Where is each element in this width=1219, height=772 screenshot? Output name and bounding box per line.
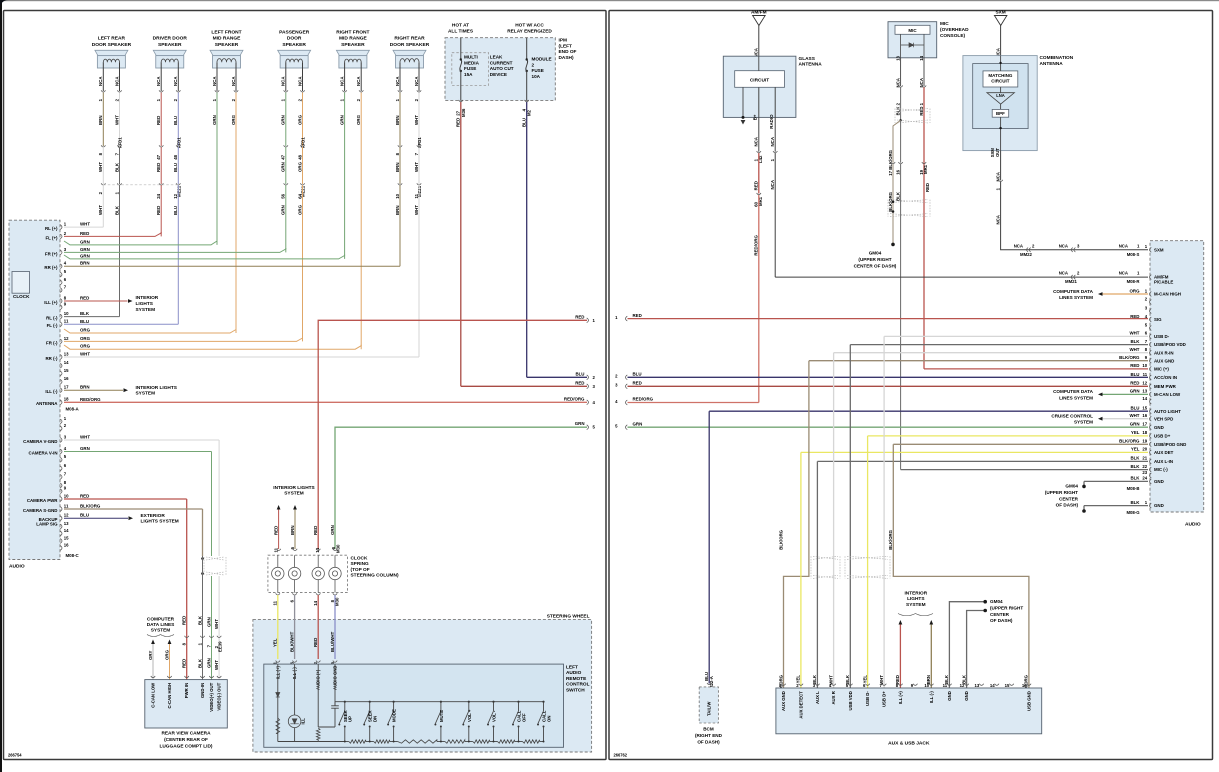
svg-text:VOL +: VOL +: [467, 709, 472, 722]
svg-text:24: 24: [156, 193, 161, 198]
svg-text:BLK: BLK: [1130, 500, 1140, 505]
svg-text:MULTI: MULTI: [464, 55, 478, 60]
svg-text:48: 48: [173, 154, 178, 159]
audio pin15 AUTO LIGHT: [1150, 409, 1152, 414]
svg-text:M08-A: M08-A: [66, 407, 80, 412]
svg-text:RED: RED: [156, 206, 161, 215]
combination antenna box: [963, 55, 1074, 157]
switch MUTE: [434, 701, 444, 742]
svg-text:GRN: GRN: [80, 239, 90, 244]
svg-text:(LEFT: (LEFT: [559, 43, 573, 49]
svg-text:56: 56: [281, 193, 286, 198]
svg-text:NCA: NCA: [895, 77, 900, 87]
svg-text:BLK: BLK: [114, 205, 119, 215]
svg-text:MATCHING: MATCHING: [988, 73, 1012, 78]
svg-text:WHT: WHT: [114, 115, 119, 125]
svg-text:RED: RED: [575, 314, 584, 319]
svg-text:10: 10: [64, 311, 69, 316]
MIC minus BLK wire down to audio pin22: [895, 164, 930, 470]
svg-text:GRN: GRN: [1130, 422, 1140, 427]
glass antenna ground stub: [741, 87, 746, 124]
svg-text:NCA: NCA: [770, 136, 775, 146]
svg-text:CIRCUIT: CIRCUIT: [991, 78, 1010, 83]
svg-text:CENTER OF DASH): CENTER OF DASH): [854, 263, 897, 268]
svg-text:MIC (-): MIC (-): [1154, 467, 1168, 472]
speaker spk3 LEFT FRONT MID RANGE SPEAKER: [210, 29, 243, 101]
audio pin AM/FM P/CABLE: [1119, 271, 1174, 285]
svg-text:AUX DETECT: AUX DETECT: [798, 691, 803, 719]
svg-text:CAMERA V-GND: CAMERA V-GND: [23, 439, 57, 444]
svg-text:SXM: SXM: [995, 10, 1005, 16]
svg-text:AUX & USB JACK: AUX & USB JACK: [888, 741, 930, 747]
svg-text:ILL (+): ILL (+): [898, 691, 903, 704]
steering wheel dashed box: [253, 620, 592, 752]
svg-text:LEFT FRONT: LEFT FRONT: [211, 29, 241, 35]
audio pin20 AUX DET: [801, 447, 1174, 455]
audio+ branch with resistor: [316, 664, 320, 741]
svg-text:WHT: WHT: [414, 162, 419, 172]
svg-text:NCA: NCA: [1119, 271, 1128, 276]
svg-text:RL (+): RL (+): [45, 226, 58, 231]
svg-text:BLU: BLU: [1130, 372, 1139, 377]
speaker spk4 PASSENGER DOOR SPEAKER: [278, 29, 311, 101]
svg-text:MODE: MODE: [392, 709, 397, 722]
SXM OUT wire to audio: [995, 151, 1148, 257]
svg-text:FUSE: FUSE: [464, 66, 476, 71]
svg-text:22: 22: [1142, 464, 1147, 469]
svg-text:SYSTEM: SYSTEM: [136, 391, 156, 397]
svg-text:REMOTE: REMOTE: [566, 676, 586, 682]
svg-text:RED: RED: [156, 116, 161, 125]
svg-text:GRN: GRN: [206, 617, 211, 627]
svg-text:SYSTEM: SYSTEM: [151, 628, 171, 634]
svg-text:13: 13: [975, 683, 980, 688]
audio pin13 M-CAN LOW with computer data arrow: [1053, 389, 1181, 401]
svg-text:10: 10: [64, 493, 69, 498]
svg-text:SYSTEM: SYSTEM: [136, 307, 156, 313]
svg-text:FL (+): FL (+): [45, 235, 58, 240]
svg-text:COMBINATION: COMBINATION: [1040, 55, 1074, 61]
MIC BLK/ORG wire to GM04 ground: [854, 164, 930, 268]
svg-text:EXTERIOR: EXTERIOR: [141, 513, 166, 519]
svg-text:LINES SYSTEM: LINES SYSTEM: [1059, 395, 1093, 400]
svg-text:RED: RED: [1130, 314, 1139, 319]
svg-text:GRN: GRN: [281, 162, 286, 172]
svg-text:GRY: GRY: [148, 651, 153, 660]
svg-text:UP: UP: [348, 716, 353, 722]
svg-text:LEFT: LEFT: [566, 665, 578, 671]
svg-text:USB VDD: USB VDD: [848, 691, 853, 710]
svg-text:ORG: ORG: [164, 649, 169, 660]
clock module box: [12, 272, 30, 294]
svg-text:RIGHT FRONT: RIGHT FRONT: [336, 29, 369, 35]
svg-text:RIGHT REAR: RIGHT REAR: [394, 36, 425, 42]
svg-text:13: 13: [64, 521, 69, 526]
svg-text:266754: 266754: [8, 753, 22, 758]
svg-text:M36: M36: [461, 108, 466, 117]
svg-text:15: 15: [1005, 683, 1010, 688]
svg-text:NCA: NCA: [919, 77, 924, 87]
svg-text:NCA: NCA: [98, 76, 103, 86]
svg-text:YEL: YEL: [1131, 447, 1140, 452]
BCM box right page: [695, 687, 723, 744]
wire row pin1 WHT to spk1 left: [64, 222, 103, 228]
wire row CAMERA PWR RED: [64, 494, 187, 557]
svg-text:USB D+: USB D+: [882, 691, 887, 707]
audio pin3: [1150, 309, 1152, 314]
svg-text:BLU: BLU: [173, 206, 178, 215]
svg-text:14: 14: [1142, 396, 1147, 401]
svg-text:USB/IPOD GND: USB/IPOD GND: [1154, 442, 1186, 447]
svg-text:M08-R: M08-R: [1127, 279, 1140, 284]
svg-text:GRN: GRN: [206, 658, 211, 668]
svg-text:GRN: GRN: [281, 115, 286, 125]
svg-text:GLASS: GLASS: [799, 56, 815, 62]
svg-text:(UPPER RIGHT: (UPPER RIGHT: [1045, 490, 1078, 495]
svg-text:12: 12: [64, 513, 69, 518]
svg-text:WHT: WHT: [98, 162, 103, 172]
svg-text:DEVICE: DEVICE: [490, 72, 507, 77]
jack wire labels above pins: [778, 674, 1028, 695]
svg-text:BLK: BLK: [895, 191, 900, 201]
svg-text:YEL: YEL: [1131, 430, 1140, 435]
svg-text:USB/IPOD VDD: USB/IPOD VDD: [1154, 342, 1186, 347]
svg-text:AUX R: AUX R: [831, 691, 836, 704]
svg-text:17: 17: [1142, 422, 1147, 427]
svg-text:RED: RED: [456, 118, 461, 127]
svg-text:COMPUTER DATA: COMPUTER DATA: [1053, 289, 1094, 294]
svg-text:RED: RED: [182, 659, 187, 668]
AM/FM P-CABLE wire to audio: [775, 271, 1148, 285]
svg-text:GND: GND: [947, 691, 952, 701]
svg-text:47: 47: [281, 154, 286, 159]
svg-text:INTERIOR: INTERIOR: [136, 295, 159, 301]
wire row FR+ GRN to spk5 left: [64, 253, 345, 259]
switch ladder top rail: [335, 702, 544, 706]
svg-text:BLK: BLK: [1130, 456, 1140, 461]
svg-text:10A: 10A: [532, 74, 541, 79]
wire AUX GND BLK/ORG drop with jog to jack pin1: [778, 361, 809, 688]
svg-text:MM22: MM22: [1020, 252, 1033, 257]
svg-text:10: 10: [1142, 363, 1147, 368]
svg-text:CAMERA V-IN: CAMERA V-IN: [29, 450, 58, 455]
svg-text:14: 14: [919, 55, 924, 60]
switch CALL OFF: [512, 701, 526, 742]
svg-text:AUX GND: AUX GND: [781, 691, 786, 711]
svg-text:ANTENNA: ANTENNA: [36, 401, 58, 406]
svg-text:GRN: GRN: [330, 525, 335, 535]
spk1 wires WHT/BLK middle segment: [98, 147, 122, 194]
svg-text:RED: RED: [80, 296, 89, 301]
svg-text:MEDIA: MEDIA: [464, 60, 480, 65]
svg-text:24: 24: [1142, 476, 1147, 481]
wire AUX R WHT drop to jack pin4: [833, 353, 835, 688]
svg-text:RED: RED: [925, 183, 930, 192]
glass antenna B+ output wire down to exit: [753, 87, 763, 402]
svg-text:CURRENT: CURRENT: [490, 60, 513, 65]
audio pin24 GND to GM04: [1082, 476, 1164, 491]
svg-text:AUX GND: AUX GND: [1154, 358, 1174, 363]
wire USB D+ YEL drop to jack pin6: [867, 436, 869, 688]
svg-text:BLK/WHT: BLK/WHT: [289, 631, 294, 652]
svg-text:CAMERA S-GND: CAMERA S-GND: [23, 508, 58, 513]
MIC BLK splice junction: [888, 119, 928, 176]
svg-text:16: 16: [1142, 413, 1147, 418]
svg-text:BLK/ORG: BLK/ORG: [888, 529, 893, 549]
svg-text:ORG: ORG: [297, 114, 302, 125]
fuse MULTI MEDIA 15A: [460, 38, 462, 101]
svg-text:RED: RED: [80, 494, 89, 499]
svg-text:LUGGAGE COMPT LID): LUGGAGE COMPT LID): [159, 744, 212, 750]
svg-text:VOL -: VOL -: [492, 710, 497, 722]
switch box pin name labels: [275, 666, 337, 691]
exit row 5 GRN to clock spring: [335, 421, 596, 549]
svg-text:NCA: NCA: [156, 76, 161, 86]
svg-text:GRN: GRN: [339, 115, 344, 125]
svg-text:ACC/ON IN: ACC/ON IN: [1154, 375, 1177, 380]
svg-text:EE39: EE39: [218, 641, 223, 652]
audio pin11 ACC/ON IN: [1150, 375, 1152, 380]
svg-text:14: 14: [64, 528, 69, 533]
svg-text:LIGHTS: LIGHTS: [136, 301, 153, 307]
svg-text:SIG: SIG: [1154, 317, 1162, 322]
svg-text:(OVERHEAD: (OVERHEAD: [940, 27, 969, 33]
svg-text:OFF: OFF: [521, 713, 526, 722]
svg-text:NCA: NCA: [356, 76, 361, 86]
svg-text:GRN: GRN: [281, 205, 286, 215]
wire row CAMERA V-IN GRN: [64, 446, 212, 556]
svg-text:C-CAN LOW: C-CAN LOW: [151, 682, 156, 708]
svg-text:OF DASH): OF DASH): [697, 739, 720, 744]
svg-text:GND-IN: GND-IN: [200, 683, 205, 698]
MIC overhead console box: [888, 21, 969, 61]
svg-text:16: 16: [64, 376, 69, 381]
svg-text:SYSTEM: SYSTEM: [1074, 420, 1093, 425]
svg-text:47: 47: [156, 154, 161, 159]
svg-text:MODULE: MODULE: [532, 57, 552, 62]
svg-text:BRN: BRN: [290, 525, 295, 535]
wires from clock spring into steering wheel: [273, 595, 335, 664]
svg-text:RED: RED: [1130, 381, 1139, 386]
svg-text:SPEAKER: SPEAKER: [158, 42, 182, 48]
svg-text:AUX L-IN: AUX L-IN: [1154, 459, 1173, 464]
wire row pin10 BLK to spk1 right: [64, 311, 120, 317]
speaker spk6 RIGHT REAR DOOR SPEAKER: [390, 36, 430, 102]
svg-text:11: 11: [64, 503, 69, 508]
speaker spk5 RIGHT FRONT MID RANGE SPEAKER: [336, 29, 369, 101]
wire row pin12 ORG to spk4 right: [64, 336, 303, 342]
svg-text:BLK: BLK: [80, 311, 90, 316]
entry row 5 GRN to GND pin17: [626, 425, 628, 430]
svg-text:OF DASH): OF DASH): [990, 618, 1013, 623]
svg-text:20: 20: [1142, 447, 1147, 452]
svg-text:WHT: WHT: [80, 222, 90, 227]
multi media fuse dashed box: [452, 53, 489, 86]
svg-text:INTERIOR LIGHTS: INTERIOR LIGHTS: [273, 485, 314, 491]
audio pin9 AUX GND: [809, 355, 1174, 363]
svg-text:M30: M30: [336, 544, 341, 553]
audio pin12 MEM PWR: [1150, 384, 1152, 389]
exit row 4 RED/ORG bracket: [587, 400, 589, 405]
svg-text:ORG: ORG: [231, 114, 236, 125]
svg-text:RED: RED: [1130, 363, 1139, 368]
audio M08-C pin rows: [23, 416, 80, 558]
svg-text:SPEAKER: SPEAKER: [341, 42, 365, 48]
svg-text:ORG: ORG: [80, 344, 91, 349]
spk2 wires RED/BLU middle segment: [156, 147, 181, 199]
svg-text:GM04: GM04: [1065, 484, 1078, 489]
left page border: [4, 11, 607, 760]
audio pin19 USB/IPOD GND: [893, 439, 1186, 447]
audio pin22 MIC-: [901, 464, 1169, 472]
svg-text:HOT AT: HOT AT: [452, 23, 469, 29]
svg-text:STEERING COLUMN): STEERING COLUMN): [351, 573, 399, 579]
wire AUX DET YEL drop to jack pin2: [800, 452, 802, 688]
svg-text:(TOP OF: (TOP OF: [351, 567, 370, 573]
svg-text:16: 16: [64, 542, 69, 547]
svg-text:DOOR SPEAKER: DOOR SPEAKER: [92, 42, 132, 48]
svg-text:CONTROL: CONTROL: [566, 682, 590, 688]
svg-text:NCA: NCA: [231, 76, 236, 86]
wire row FR- ORG to spk5 right: [64, 344, 361, 350]
svg-text:MUTE: MUTE: [439, 710, 444, 722]
svg-text:CENTER: CENTER: [1059, 496, 1079, 501]
svg-text:RED: RED: [313, 638, 318, 647]
fuse MODULE 2 10A: [526, 38, 552, 101]
svg-text:RED: RED: [156, 163, 161, 172]
svg-text:LIGHTS SYSTEM: LIGHTS SYSTEM: [141, 519, 179, 525]
audio pin16 VEH SPD with cruise control arrow: [1051, 413, 1173, 425]
svg-text:CLOCK: CLOCK: [13, 294, 30, 299]
spk1 wires BRN/WHT upper segment: [98, 93, 122, 156]
IPM box (LEFT END OF DASH): [445, 38, 555, 101]
svg-text:14: 14: [990, 683, 995, 688]
svg-text:P/CABLE: P/CABLE: [1154, 280, 1173, 285]
svg-text:SPRING: SPRING: [351, 561, 370, 567]
svg-text:WHT: WHT: [214, 619, 219, 629]
spk6 wires BRN/WHT middle segment: [395, 147, 422, 199]
svg-text:BRN: BRN: [98, 115, 103, 125]
svg-text:GND: GND: [1154, 503, 1164, 508]
svg-text:17: 17: [64, 385, 69, 390]
svg-text:RED/ORG: RED/ORG: [564, 396, 585, 401]
svg-text:FUSE: FUSE: [532, 68, 544, 73]
svg-text:GRN: GRN: [80, 253, 90, 258]
svg-text:GND: GND: [964, 691, 969, 701]
svg-text:AUDIO: AUDIO: [566, 670, 582, 676]
svg-text:RELAY ENERGIZED: RELAY ENERGIZED: [507, 28, 552, 34]
clock spring lower pins: [273, 593, 340, 606]
svg-text:ORG: ORG: [1129, 288, 1140, 293]
switch VOL +: [462, 701, 472, 742]
svg-text:BLK: BLK: [1130, 339, 1140, 344]
wire USB D- WHT drop to jack pin7: [883, 336, 885, 688]
audio pin10 MIC+: [924, 363, 1169, 371]
svg-text:NCA: NCA: [212, 76, 217, 86]
svg-text:SYSTEM: SYSTEM: [906, 602, 926, 608]
svg-text:BLU: BLU: [522, 118, 527, 127]
svg-text:13: 13: [1142, 389, 1147, 394]
audio pin17 GND: [1150, 425, 1152, 430]
wire row pin2 RED to spk2 left: [64, 231, 161, 237]
svg-text:RADIO: RADIO: [769, 114, 774, 129]
svg-text:14: 14: [313, 600, 318, 605]
svg-text:INTERIOR LIGHTS: INTERIOR LIGHTS: [136, 385, 177, 391]
svg-text:21: 21: [1142, 456, 1147, 461]
svg-text:SPEAKER: SPEAKER: [215, 42, 239, 48]
svg-text:BLK: BLK: [1130, 464, 1140, 469]
svg-text:14: 14: [64, 360, 69, 365]
svg-text:16: 16: [895, 169, 900, 174]
svg-text:NCA: NCA: [173, 76, 178, 86]
right page border: [609, 11, 1213, 760]
svg-text:BRN: BRN: [80, 261, 90, 266]
svg-text:AUX DET: AUX DET: [1154, 450, 1174, 455]
wire row CAMERA V-GND WHT: [64, 435, 219, 557]
svg-text:NCA: NCA: [1014, 243, 1023, 248]
entry row 2 BLU to BCM drop: [615, 372, 1148, 380]
svg-text:GRN: GRN: [633, 421, 643, 426]
svg-text:MIC: MIC: [940, 21, 949, 27]
jack GND wires to GM04 grounds: [944, 599, 1023, 688]
svg-text:RL (-): RL (-): [46, 316, 58, 321]
spk6 wires BRN/WHT upper segment: [395, 93, 422, 156]
svg-text:AUX L: AUX L: [815, 691, 820, 704]
svg-text:WHT: WHT: [1129, 413, 1139, 418]
AM/FM antenna symbol: [751, 10, 767, 58]
svg-text:NCA: NCA: [995, 214, 1000, 224]
audio pin7 USB/IPOD VDD: [850, 339, 1186, 347]
audio pin8 AUX R-IN: [834, 347, 1174, 355]
exit row 1 RED to right page: [318, 314, 595, 549]
svg-text:(UPPER RIGHT: (UPPER RIGHT: [858, 257, 891, 262]
svg-text:GM04: GM04: [869, 251, 882, 256]
spk4 wires GRN/ORG lower segment to audio pins 3/12: [281, 185, 303, 341]
svg-text:BPF: BPF: [996, 111, 1005, 116]
svg-text:WHT: WHT: [1129, 331, 1139, 336]
svg-text:VIDEO(+) OUT: VIDEO(+) OUT: [209, 682, 214, 711]
audio pin SXM: [1119, 243, 1164, 256]
svg-text:GM04: GM04: [990, 599, 1003, 604]
svg-text:BCM: BCM: [703, 727, 714, 732]
svg-text:GRN: GRN: [80, 446, 90, 451]
svg-text:WHT: WHT: [98, 205, 103, 215]
audio unit box right page: [1150, 241, 1204, 512]
svg-text:USB D-: USB D-: [865, 691, 870, 706]
svg-text:BRN: BRN: [80, 385, 90, 390]
MIC wires BLK/RED segment with twisted pair: [895, 87, 930, 369]
svg-text:OF DASH): OF DASH): [1056, 503, 1079, 508]
svg-text:AUX R-IN: AUX R-IN: [1154, 350, 1174, 355]
svg-text:13: 13: [64, 351, 69, 356]
svg-text:END OF: END OF: [559, 49, 577, 55]
svg-text:M-CAN LOW: M-CAN LOW: [1154, 392, 1181, 397]
svg-text:15A: 15A: [464, 72, 473, 77]
wire USB/IPOD VDD BLK drop to jack pin5: [849, 345, 851, 688]
audio M08-A pin rows: [36, 222, 80, 412]
audio pin23: [1150, 473, 1152, 478]
svg-text:PASSENGER: PASSENGER: [279, 29, 310, 35]
svg-text:RED/ORG: RED/ORG: [754, 234, 759, 255]
svg-text:12: 12: [64, 336, 69, 341]
svg-text:ILL (-): ILL (-): [45, 389, 58, 394]
svg-text:NCA: NCA: [281, 76, 286, 86]
switch SEEK UP: [338, 701, 352, 742]
audio pin1 M-CAN HIGH with computer data arrow: [1053, 288, 1181, 300]
svg-text:48: 48: [297, 154, 302, 159]
svg-text:LINES SYSTEM: LINES SYSTEM: [1059, 295, 1093, 300]
svg-text:GND: GND: [1154, 479, 1164, 484]
